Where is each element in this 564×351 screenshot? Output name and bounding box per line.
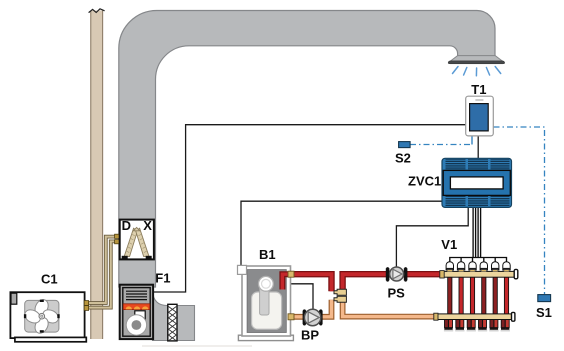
refrigerant line set C1 to coil xyxy=(84,234,119,310)
aquastat box xyxy=(238,265,247,274)
return port fitting xyxy=(288,314,294,320)
floor loop stub pair at x=461.1 xyxy=(455,319,464,330)
blue dash-dot link S2 to T1 xyxy=(410,144,472,146)
svg-text:B1: B1 xyxy=(259,247,276,262)
floor loop stub pair at x=495.2 xyxy=(489,319,498,330)
pump PS xyxy=(386,267,408,282)
orange return pipe tee to BP/B1 xyxy=(294,300,332,317)
zone valve control ZVC1 xyxy=(442,158,512,207)
fan blades xyxy=(23,297,61,335)
boiler B1 xyxy=(238,265,295,340)
pump BP xyxy=(303,309,323,325)
zone valve actuator 4 xyxy=(480,262,487,272)
condenser C1 xyxy=(10,292,86,342)
boiler internal supply pipe xyxy=(282,274,289,289)
A-coil apex xyxy=(133,227,139,230)
blower window xyxy=(135,311,145,320)
closely spaced tees xyxy=(334,289,346,302)
svg-text:S2: S2 xyxy=(395,151,411,166)
thermostat T1 xyxy=(466,96,494,136)
svg-text:X: X xyxy=(143,218,152,233)
svg-text:ZVC1: ZVC1 xyxy=(408,174,441,189)
svg-text:V1: V1 xyxy=(441,237,457,252)
furnace F1 xyxy=(120,285,153,339)
svg-text:C1: C1 xyxy=(41,271,58,286)
red supply pipe B1 to primary tee xyxy=(293,274,332,291)
diffuser flare xyxy=(450,56,502,62)
red supply pipe tee to PS and manifold xyxy=(343,274,442,290)
supply manifold bar xyxy=(440,269,518,278)
A-coil left band xyxy=(124,228,137,256)
furnace vent lines xyxy=(126,291,147,299)
wires ZVC1 to zone valves xyxy=(450,207,507,262)
floor loop stub pair at x=483.8 xyxy=(478,319,487,330)
supply duct trunk xyxy=(119,11,495,288)
A-coil right band xyxy=(136,228,149,256)
blower circle xyxy=(126,315,146,335)
sensor S1 xyxy=(538,295,551,302)
svg-text:F1: F1 xyxy=(155,270,170,285)
return manifold bar xyxy=(434,312,515,321)
return duct with filter xyxy=(153,292,195,341)
wire ZVC1 to pump PS xyxy=(396,207,468,268)
manifold V1: zone pipes xyxy=(448,277,509,315)
air flow rays xyxy=(453,67,501,76)
wire B1 to pump BP xyxy=(289,284,313,310)
wire T1 to F1 xyxy=(153,125,466,292)
svg-text:D: D xyxy=(122,218,131,233)
blue dash-dot link T1 to S1 xyxy=(494,127,545,294)
boiler tank xyxy=(252,292,282,329)
zone valve actuator 3 xyxy=(469,262,476,272)
zone valve actuator 2 xyxy=(457,262,464,272)
floor shadow line xyxy=(142,345,252,347)
wire ZVC1 to B1 aquastat xyxy=(241,201,442,265)
floor loop stub pair at x=472.5 xyxy=(467,319,476,330)
floor loop stub pair at x=449.8 xyxy=(444,319,453,330)
coil hatching xyxy=(126,234,147,253)
boiler circulator circle xyxy=(259,276,274,291)
supply port fitting xyxy=(288,271,294,277)
orange return pipe manifold to tee xyxy=(343,301,437,317)
diffuser rim xyxy=(448,61,504,64)
svg-text:T1: T1 xyxy=(471,82,486,97)
zone valve actuator 6 xyxy=(503,262,510,272)
zone valve actuator 5 xyxy=(492,262,499,272)
chimney flue pipe xyxy=(89,9,105,339)
svg-text:S1: S1 xyxy=(536,305,552,320)
sensor S2 xyxy=(399,142,411,148)
damper / evaporator coil box D X xyxy=(120,220,154,260)
boiler stem xyxy=(260,284,269,315)
svg-text:BP: BP xyxy=(301,327,319,342)
floor loop stub pair at x=506.5 xyxy=(501,319,510,330)
svg-text:PS: PS xyxy=(388,286,406,301)
slats bottom xyxy=(446,197,510,206)
air filter (hatched) xyxy=(168,304,177,341)
slats top xyxy=(446,160,510,169)
zone valve actuator 1 xyxy=(446,262,453,272)
burner band xyxy=(123,304,150,310)
wire T1 to ZVC1 xyxy=(477,136,479,158)
